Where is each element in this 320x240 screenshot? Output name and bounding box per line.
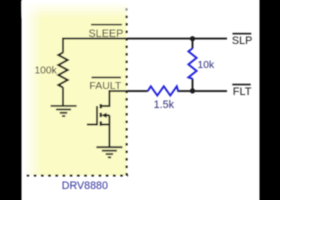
- svg-text:DRV8880: DRV8880: [62, 180, 108, 192]
- svg-text:SLEEP: SLEEP: [88, 28, 123, 40]
- svg-text:SLP: SLP: [232, 35, 252, 47]
- svg-text:FAULT: FAULT: [89, 80, 121, 92]
- svg-text:100k: 100k: [34, 65, 57, 76]
- svg-text:10k: 10k: [198, 60, 215, 71]
- svg-text:FLT: FLT: [233, 86, 252, 98]
- svg-text:1.5k: 1.5k: [154, 99, 175, 111]
